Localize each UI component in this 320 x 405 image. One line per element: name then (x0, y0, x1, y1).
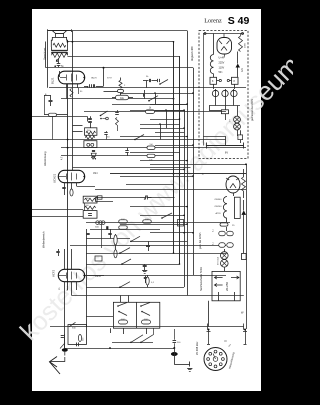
svg-text:0W240: 0W240 (215, 206, 223, 208)
svg-text:50≈: 50≈ (219, 71, 224, 74)
svg-text:gem. bei 220V≈: gem. bei 220V≈ (199, 232, 202, 249)
svg-text:0W340: 0W340 (215, 199, 223, 201)
svg-text:1M45: 1M45 (95, 276, 101, 278)
svg-text:Netzfreischalter 500Ω: Netzfreischalter 500Ω (200, 267, 203, 291)
svg-text:VALVO: VALVO (91, 76, 98, 79)
svg-text:Vkl: Vkl (149, 144, 153, 146)
svg-text:SYST: SYST (107, 77, 113, 79)
svg-text:500: 500 (86, 205, 89, 207)
svg-text:Lorenz: Lorenz (204, 18, 222, 25)
svg-text:UCH21: UCH21 (53, 173, 57, 183)
svg-text:6V 0,1A: 6V 0,1A (217, 257, 220, 265)
svg-text:AZ1: AZ1 (241, 67, 244, 72)
svg-text:6V: 6V (225, 151, 228, 155)
svg-text:Sprechtast: Sprechtast (43, 47, 47, 60)
svg-text:110V: 110V (219, 67, 225, 70)
svg-text:2000: 2000 (245, 42, 247, 48)
svg-text:U≈4P: U≈4P (219, 57, 226, 60)
svg-text:gemessen bei 220V: gemessen bei 220V (251, 99, 254, 121)
svg-text:Abstimmung: Abstimmung (43, 151, 47, 166)
svg-text:BL21: BL21 (51, 77, 55, 84)
svg-text:1M4: 1M4 (93, 173, 98, 175)
svg-text:×: × (202, 172, 204, 176)
svg-text:VCF2: VCF2 (52, 269, 56, 277)
svg-text:Wellenbereich: Wellenbereich (42, 231, 46, 248)
svg-text:A720: A720 (216, 212, 222, 215)
svg-text:225V: 225V (219, 62, 225, 65)
svg-text:20-250: 20-250 (225, 282, 229, 291)
svg-text:ZF 468 kHz: ZF 468 kHz (195, 341, 199, 355)
svg-text:S 49: S 49 (228, 15, 250, 27)
svg-text:Abgleich 468: Abgleich 468 (191, 46, 194, 61)
svg-text:+: + (228, 177, 230, 181)
